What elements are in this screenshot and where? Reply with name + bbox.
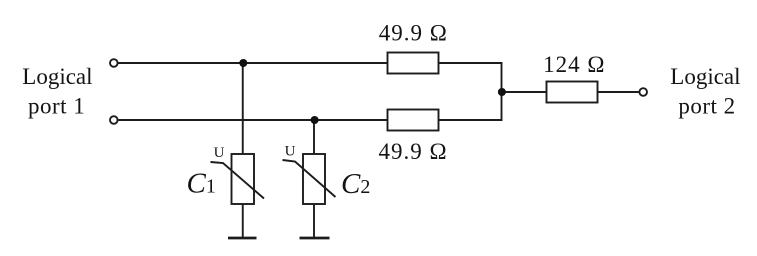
svg-text:49.9 Ω: 49.9 Ω <box>379 21 448 46</box>
wire top-left <box>118 62 387 64</box>
wire right vertical <box>501 62 503 121</box>
wire bottom-right <box>439 119 503 121</box>
varistor C2 body <box>303 154 325 204</box>
ground C2 <box>300 237 330 240</box>
wire C2 top lead <box>313 120 315 154</box>
wire C2 bottom lead <box>313 204 315 238</box>
svg-text:124 Ω: 124 Ω <box>543 52 605 77</box>
terminal circle port1 top <box>110 59 118 67</box>
svg-text:Logical: Logical <box>22 64 92 89</box>
wire C1 bottom lead <box>242 204 244 238</box>
svg-text:C1: C1 <box>187 168 216 200</box>
wire bottom-left <box>118 119 387 121</box>
wire middle-right <box>598 91 640 93</box>
resistor R1 49.9 ohm top <box>388 53 439 74</box>
junction node bottom wire <box>311 116 319 124</box>
varistor C1 diagonal <box>211 162 265 199</box>
svg-text:Logical: Logical <box>670 64 740 89</box>
terminal circle port2 <box>639 88 647 96</box>
wire top-right <box>439 62 503 64</box>
svg-text:C2: C2 <box>341 168 370 200</box>
resistor R3 124 ohm <box>547 82 598 103</box>
wire C1 top lead <box>242 63 244 154</box>
varistor C1 body <box>232 154 255 204</box>
terminal circle port1 bottom <box>110 116 118 124</box>
junction node top wire <box>239 59 247 67</box>
svg-text:port 1: port 1 <box>28 94 85 119</box>
ground C1 <box>228 237 257 240</box>
svg-text:U: U <box>285 144 296 160</box>
junction node middle wire <box>498 88 506 96</box>
svg-text:U: U <box>214 145 225 161</box>
varistor C2 diagonal <box>283 160 336 197</box>
svg-text:49.9 Ω: 49.9 Ω <box>378 139 447 164</box>
svg-text:port 2: port 2 <box>678 94 735 119</box>
resistor R2 49.9 ohm bottom <box>388 110 439 131</box>
wire middle-left <box>502 91 547 93</box>
